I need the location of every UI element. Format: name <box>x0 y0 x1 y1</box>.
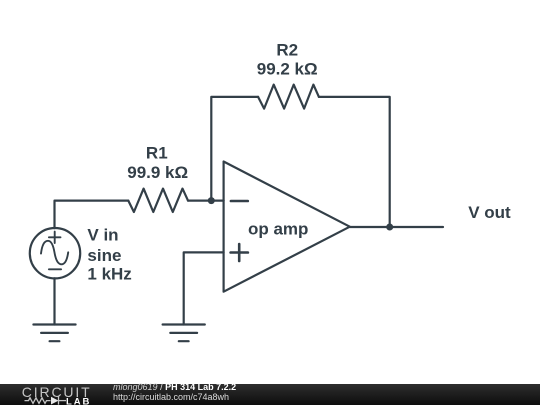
svg-text:99.2 kΩ: 99.2 kΩ <box>257 59 318 78</box>
ground under source <box>33 325 75 342</box>
svg-text:R2: R2 <box>276 41 298 60</box>
svg-text:V in: V in <box>87 226 118 245</box>
wire ground to non-inverting input <box>184 252 224 324</box>
node junction at inverting input <box>208 197 215 204</box>
svg-text:1 kHz: 1 kHz <box>87 264 131 283</box>
CircuitLab logo <box>0 384 110 405</box>
wire feedback vertical up <box>211 97 258 201</box>
voltage source V1 <box>30 228 80 278</box>
svg-text:V out: V out <box>468 203 511 222</box>
wire source top to R1 <box>55 201 129 229</box>
footer bar <box>0 384 540 405</box>
svg-text:sine: sine <box>87 246 121 265</box>
node junction at output <box>386 224 393 231</box>
wire source bottom to ground <box>53 278 55 324</box>
wire R2 right down to output <box>319 97 390 227</box>
ground at non-inverting input <box>163 325 205 342</box>
resistor R1 <box>128 189 188 212</box>
resistor R2 <box>258 85 319 109</box>
svg-text:99.9 kΩ: 99.9 kΩ <box>127 163 188 182</box>
wire R1 to op-amp inverting input <box>188 200 224 202</box>
svg-text:op amp: op amp <box>248 220 308 239</box>
op-amp U1 <box>224 162 350 292</box>
svg-text:LAB: LAB <box>66 396 91 405</box>
svg-text:R1: R1 <box>146 144 168 163</box>
footer credits <box>113 383 413 385</box>
wire op-amp output to V out <box>350 226 443 228</box>
